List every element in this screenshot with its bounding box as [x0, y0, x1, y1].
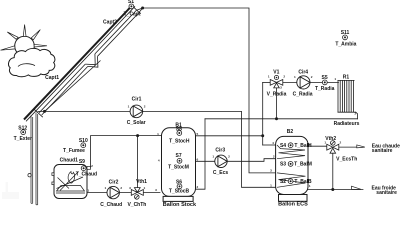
faint watermark bottom left: [2, 182, 19, 199]
wire Vth2 to hot water arrow: [339, 146, 357, 148]
svg-text:C_Solar: C_Solar: [127, 120, 146, 126]
svg-text:T_StocB: T_StocB: [169, 188, 190, 194]
svg-text:4: 4: [158, 158, 160, 162]
svg-text:S9: S9: [79, 159, 85, 165]
node cold water tee: [331, 188, 334, 191]
tank B1 pin numbers: [155, 132, 198, 192]
svg-text:T_StocM: T_StocM: [168, 165, 189, 171]
sensor S5 T_Radia: [315, 75, 335, 92]
svg-text:2: 2: [91, 164, 93, 168]
svg-text:1: 1: [334, 77, 336, 81]
svg-text:R1: R1: [343, 75, 350, 81]
collector bottom end cap: [34, 109, 43, 117]
pump Cir4: [293, 70, 313, 98]
svg-text:1: 1: [324, 140, 326, 144]
svg-text:T_Chaud: T_Chaud: [76, 171, 97, 177]
svg-text:V1: V1: [273, 70, 279, 76]
wire radiator return main: [205, 118, 358, 120]
arrow cold water in: [352, 186, 362, 189]
svg-text:1: 1: [87, 189, 89, 193]
wire ECS charge loop: Stock pin 6 via Cir3 to B2 upper coil pin 2: [196, 159, 278, 162]
svg-text:5: 5: [197, 132, 199, 136]
wire V1 bottom port drop: [276, 88, 278, 119]
svg-text:T_Radia: T_Radia: [315, 86, 335, 92]
boiler interior stove: [56, 172, 85, 194]
tank B2 Ballon ECS: [276, 129, 309, 208]
svg-text:2: 2: [273, 154, 275, 158]
tank B2 lower heat exchanger coil: [277, 173, 306, 187]
collector pipe Capt1 lower pair: [39, 64, 88, 115]
boiler Chaud1: [52, 157, 93, 198]
svg-text:S4: S4: [280, 143, 286, 149]
wire boiler supply: boiler top to Ballon Stock pin 1: [91, 136, 162, 168]
sensor S11 T_Ambia: [335, 30, 356, 48]
svg-text:1: 1: [268, 75, 270, 79]
sensor S2 T_BalB: [280, 179, 312, 185]
sensor S12 T_Exter: [14, 125, 32, 142]
wire stock hot out: Stock pin 5 to riser junction: [196, 135, 263, 137]
wire solar hot supply: collector top to B2 lower coil pin 3: [143, 8, 277, 173]
wire Vth2 bottom drop: [332, 153, 334, 189]
svg-text:2: 2: [340, 140, 342, 144]
tank B2 pin numbers: [270, 141, 311, 188]
svg-text:Cir4: Cir4: [298, 70, 308, 76]
wire to B2 upper coil pin 4: [263, 144, 277, 146]
svg-text:C_Ecs: C_Ecs: [213, 170, 229, 176]
node radiator return tee: [275, 117, 278, 120]
svg-text:T_StocH: T_StocH: [169, 138, 190, 144]
collector glazing line: [26, 6, 135, 121]
wire radiator return down leg to Stock pin 2: [196, 119, 205, 189]
svg-text:C_Radia: C_Radia: [293, 91, 313, 97]
svg-text:1: 1: [270, 183, 272, 187]
label Eau froide sanitaire: [372, 185, 398, 196]
collector return line to bottom junction: [45, 61, 101, 112]
sensor S6 T_StocB: [169, 180, 190, 195]
svg-text:Ballon ECS: Ballon ECS: [278, 202, 308, 207]
svg-text:T_Fumee: T_Fumee: [63, 148, 85, 154]
svg-text:Ballon Stock: Ballon Stock: [163, 202, 197, 207]
tank B1 Ballon Stock: [162, 123, 197, 209]
solar collector panel Capt1 + Capt2: [24, 5, 143, 122]
node collector bottom junction: [43, 110, 46, 113]
svg-text:2: 2: [311, 75, 313, 79]
sensor S9 T_Chaud: [76, 159, 97, 177]
svg-text:3: 3: [155, 188, 157, 192]
svg-text:1: 1: [157, 132, 159, 136]
svg-text:Radiateurs: Radiateurs: [334, 121, 360, 127]
svg-text:4: 4: [272, 141, 274, 145]
radiator R1: [334, 75, 360, 127]
svg-text:T_BalB: T_BalB: [294, 179, 312, 185]
svg-text:Cir2: Cir2: [109, 180, 119, 186]
valve Vth1 V_ChTh: [127, 179, 147, 208]
valve Vth2 V_EcsTh: [324, 136, 357, 163]
svg-text:1: 1: [128, 105, 130, 109]
svg-text:V_Radia: V_Radia: [267, 91, 287, 97]
sensor S7 T_StocM: [168, 153, 189, 170]
wall pipes from collector down: [28, 113, 38, 205]
wire V1 riser: [262, 82, 264, 145]
svg-text:V_EcsTh: V_EcsTh: [336, 157, 357, 163]
cloud: [9, 48, 55, 76]
wire ECS hot out: B2 to Vth2: [308, 145, 326, 147]
collector thick absorber edge: [24, 5, 133, 120]
wire radiator return hook: [356, 112, 358, 119]
svg-text:Vth1: Vth1: [136, 179, 147, 185]
sensor S8 T_StocH: [169, 126, 190, 144]
svg-text:S2: S2: [280, 179, 286, 185]
svg-text:T_Ambia: T_Ambia: [335, 42, 356, 48]
svg-text:C_Chaud: C_Chaud: [100, 202, 122, 207]
collector jog chevron between Capt1 and Capt2: [85, 54, 98, 67]
sensor S3 T_BalM: [280, 162, 312, 168]
node collector top junction: [141, 7, 144, 10]
svg-text:1: 1: [212, 155, 214, 159]
wire Vth1 riser branch: [137, 136, 139, 189]
svg-text:2: 2: [120, 186, 122, 190]
svg-text:sanitaire: sanitaire: [376, 190, 397, 196]
svg-text:2: 2: [283, 75, 285, 79]
svg-text:2: 2: [355, 112, 357, 116]
boiler left port stubs: [52, 167, 91, 185]
svg-text:Cir1: Cir1: [132, 97, 142, 103]
pump Cir3: [212, 148, 230, 176]
svg-text:2: 2: [228, 155, 230, 159]
svg-text:T_Exter: T_Exter: [14, 136, 32, 142]
drain vent circle on wall pipe: [28, 174, 31, 177]
svg-text:3: 3: [280, 86, 282, 90]
svg-text:3: 3: [270, 169, 272, 173]
sensor S4 T_BalH: [280, 143, 312, 149]
sun: [1, 25, 48, 56]
label Eau chaude sanitaire: [372, 144, 400, 154]
wire radiator supply: V1 via Cir4 and S5 to R1: [283, 81, 339, 83]
svg-text:T_BalH: T_BalH: [294, 143, 312, 149]
svg-text:B2: B2: [287, 129, 294, 135]
svg-text:T_BalM: T_BalM: [294, 162, 312, 168]
svg-text:Cir3: Cir3: [215, 148, 225, 154]
collector top end cap: [132, 6, 141, 14]
svg-text:2: 2: [144, 105, 146, 109]
svg-text:2: 2: [197, 185, 199, 189]
boiler top right port stub: [87, 167, 91, 170]
svg-text:1: 1: [144, 186, 146, 190]
collector pipe Capt2 upper pair: [95, 10, 139, 56]
svg-text:3: 3: [129, 186, 131, 190]
svg-text:Capt1: Capt1: [45, 75, 59, 81]
wire cold water line: [308, 189, 363, 191]
node boiler supply tee to Vth1: [136, 134, 139, 137]
valve V1 V_Radia: [267, 70, 287, 98]
arrow hot water out: [357, 145, 365, 148]
pump Cir2: [100, 180, 122, 208]
svg-text:6: 6: [197, 157, 199, 161]
wire boiler loop: boiler bottom via Cir2 and Vth1 to Stock pin 3: [87, 192, 160, 194]
svg-text:1: 1: [105, 186, 107, 190]
svg-text:Capt2: Capt2: [103, 20, 117, 26]
collector top stub to junction: [136, 8, 142, 13]
wire to V1 left port: [263, 81, 271, 83]
svg-text:Chaud1: Chaud1: [60, 157, 79, 163]
sensor S10 T_Fumee: [63, 138, 88, 154]
svg-text:sanitaire: sanitaire: [372, 148, 393, 154]
svg-text:T_Capt: T_Capt: [124, 12, 141, 18]
svg-text:V_ChTh: V_ChTh: [127, 202, 146, 207]
sensor S1 T_Capt: [124, 0, 141, 18]
svg-text:S3: S3: [280, 162, 286, 168]
svg-text:1: 1: [294, 75, 296, 79]
node stock hot tee: [261, 134, 264, 137]
pump Cir1: [127, 97, 146, 126]
tank B2 upper heat exchanger coil: [277, 145, 305, 159]
wire solar return: collector bottom via Cir1 to B2 lower coil pin 1: [38, 111, 277, 187]
